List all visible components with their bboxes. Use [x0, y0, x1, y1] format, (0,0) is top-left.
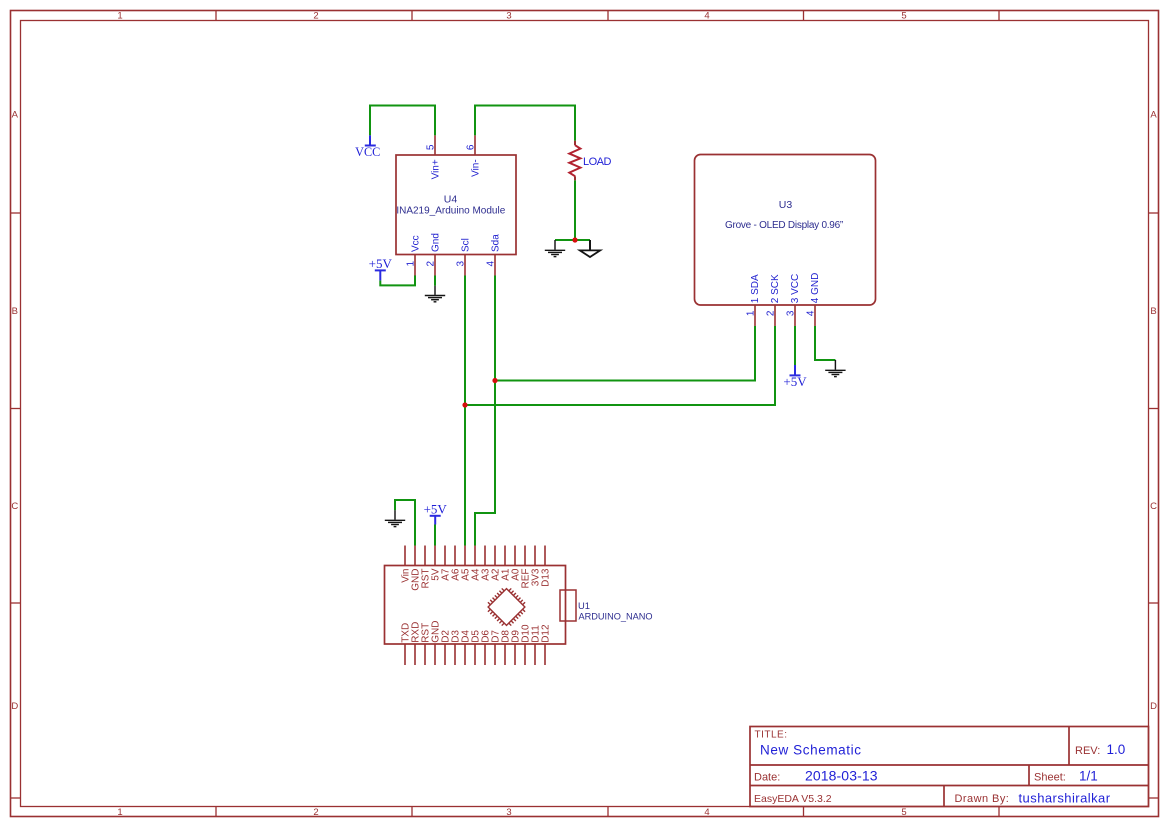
svg-text:3: 3 — [456, 260, 467, 266]
svg-text:1: 1 — [117, 11, 122, 22]
svg-text:3: 3 — [506, 11, 511, 22]
svg-text:A: A — [12, 109, 19, 120]
svg-text:3: 3 — [506, 807, 511, 818]
svg-text:B: B — [1150, 306, 1156, 317]
svg-text:5: 5 — [901, 11, 906, 22]
svg-text:2 SCK: 2 SCK — [770, 274, 781, 303]
svg-text:D: D — [11, 701, 18, 712]
svg-text:1/1: 1/1 — [1079, 769, 1098, 784]
svg-text:Grove - OLED Display 0.96”: Grove - OLED Display 0.96” — [725, 220, 843, 231]
svg-text:2: 2 — [313, 11, 318, 22]
svg-text:1: 1 — [117, 807, 122, 818]
svg-text:INA219_Arduino Module: INA219_Arduino Module — [396, 206, 505, 217]
svg-text:4: 4 — [806, 310, 817, 316]
svg-text:4 GND: 4 GND — [810, 273, 821, 304]
svg-text:Sheet:: Sheet: — [1034, 772, 1066, 784]
svg-text:4: 4 — [704, 807, 709, 818]
svg-text:New Schematic: New Schematic — [760, 743, 862, 758]
svg-text:Vcc: Vcc — [411, 235, 422, 252]
svg-text:1 SDA: 1 SDA — [750, 274, 761, 303]
svg-text:LOAD: LOAD — [583, 156, 612, 168]
svg-text:3: 3 — [786, 310, 797, 316]
svg-text:Drawn By:: Drawn By: — [955, 793, 1010, 805]
svg-text:2: 2 — [313, 807, 318, 818]
svg-text:D13: D13 — [541, 568, 552, 587]
svg-text:EasyEDA V5.3.2: EasyEDA V5.3.2 — [754, 793, 832, 805]
svg-text:Date:: Date: — [754, 772, 780, 784]
svg-text:+5V: +5V — [369, 256, 393, 271]
svg-text:A: A — [1150, 109, 1157, 120]
svg-text:1: 1 — [746, 310, 757, 316]
svg-text:2: 2 — [766, 310, 777, 316]
svg-text:D: D — [1150, 701, 1157, 712]
svg-text:TITLE:: TITLE: — [755, 730, 788, 741]
svg-text:U3: U3 — [779, 199, 793, 211]
svg-text:U4: U4 — [444, 193, 458, 205]
svg-text:C: C — [11, 501, 18, 512]
svg-text:6: 6 — [466, 144, 477, 150]
svg-text:1.0: 1.0 — [1107, 742, 1126, 757]
svg-text:5: 5 — [426, 144, 437, 150]
svg-text:2018-03-13: 2018-03-13 — [805, 768, 878, 784]
svg-text:2: 2 — [426, 260, 437, 266]
svg-text:VCC: VCC — [355, 145, 380, 159]
svg-text:4: 4 — [704, 11, 709, 22]
svg-text:+5V: +5V — [424, 502, 448, 517]
svg-text:1: 1 — [406, 260, 417, 266]
svg-text:Scl: Scl — [461, 238, 472, 252]
svg-text:Gnd: Gnd — [431, 233, 442, 252]
svg-text:tusharshiralkar: tusharshiralkar — [1019, 791, 1111, 806]
svg-text:ARDUINO_NANO: ARDUINO_NANO — [579, 611, 653, 621]
svg-text:B: B — [12, 306, 18, 317]
svg-text:Sda: Sda — [491, 234, 502, 252]
svg-text:5: 5 — [901, 807, 906, 818]
svg-text:3 VCC: 3 VCC — [790, 274, 801, 303]
svg-text:D12: D12 — [541, 624, 552, 643]
svg-text:C: C — [1150, 501, 1157, 512]
svg-text:Vin-: Vin- — [471, 159, 482, 177]
svg-text:+5V: +5V — [783, 374, 807, 389]
svg-text:4: 4 — [486, 260, 497, 266]
svg-text:REV:: REV: — [1075, 745, 1100, 757]
svg-text:U1: U1 — [578, 600, 590, 611]
svg-text:Vin+: Vin+ — [431, 159, 442, 179]
